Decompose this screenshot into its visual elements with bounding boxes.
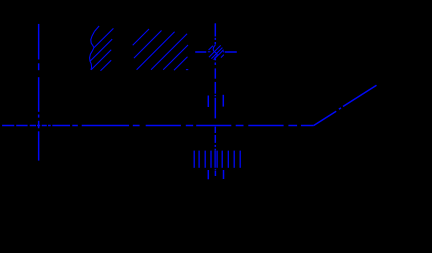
vertical centerline left (x=38.65) dash 1 [38,24,40,60]
horizontal centerline dash 15 [288,125,297,127]
hatch section2 bottom tick [186,69,188,71]
bundle line 5 center [214,150,216,168]
vertical centerline middle dot a [214,38,216,40]
crosshair horizontal right dash [225,51,237,53]
vertical centerline middle dash 2 [214,68,216,78]
bundle line 8 [227,151,229,168]
shaft break symbol at center (215.3,51.8) [208,45,224,60]
crosshair horizontal left dash [195,51,206,53]
bundle line 4 [210,151,212,168]
hatch section2 line 5 [163,45,188,70]
horizontal centerline dash 3 [30,125,36,127]
hidden line right flank upper dash [222,95,224,107]
horizontal centerline dash 14 [248,125,283,127]
hatch section2 line 4 [151,34,187,70]
centerline dot inside symbol right [223,51,224,53]
hatch section2 line 1 [133,29,149,45]
vertical centerline middle dot c [214,59,216,61]
horizontal centerline dash 4 [42,125,47,127]
bundle line 2 [198,151,200,168]
vertical centerline left crossing dash [38,121,40,129]
vertical centerline middle dot h below bundle [214,168,216,171]
vertical centerline left short dash [38,63,40,70]
wavy break line section 1 [90,31,95,70]
hatch section1 line 5 [101,60,112,70]
bundle line 9 [233,151,235,168]
hatch section1 line 3 [90,39,112,61]
vertical centerline middle (x=215.3) top dash [214,23,216,36]
horizontal centerline dash 6 [52,125,70,127]
vertical centerline middle dot d [214,63,216,65]
vertical centerline left dash 2 [38,77,40,112]
horizontal centerline dash 16 [301,125,314,127]
vertical centerline middle dash 3 [214,82,216,94]
horizontal centerline dash 10 [146,125,181,127]
hatch section2 line 2 [134,31,162,59]
horizontal centerline dash 9 [133,125,140,127]
spline bundle vertical lines [194,150,240,168]
vertical centerline middle dash 5 below crossing [214,127,216,133]
horizontal centerline dash 1 [2,125,14,127]
hidden line left flank upper dash [207,96,209,108]
vertical centerline middle dot between [214,95,216,97]
break symbol S-squiggle [213,45,217,59]
bundle line 6 [216,151,218,168]
bent centerline diagonal dot [339,108,341,109]
break symbol hatch stroke long 3 [214,50,224,60]
break symbol hatch stroke short lower-right [221,55,224,58]
horizontal centerline crossing dot [37,125,40,127]
vertical centerline middle dot e [214,145,216,147]
vertical centerline middle dash 4 [214,98,216,119]
break symbol hatch stroke long 1 [209,45,221,57]
vertical centerline left dot [38,115,40,118]
horizontal centerline dash 12 [196,125,231,127]
vertical centerline left lower dash [38,131,40,160]
horizontal centerline dash 2 [16,125,27,127]
hidden line left flank lower dash [207,170,209,179]
vertical centerline middle dot f [214,149,216,151]
centerline dot inside symbol left [208,51,211,53]
bent centerline diagonal segment 1 [314,111,337,125]
break symbol hatch stroke short upper-left [209,46,213,50]
hatch section2 line 3 [137,32,175,70]
vertical centerline middle dash 6 [214,135,216,143]
vertical centerline middle dot b [214,42,216,45]
horizontal centerline dash 7 [72,125,78,127]
break symbol hatch stroke long 2 [211,48,222,59]
hatch section2 line 6 [174,57,188,70]
hatch section1 line 4 [91,50,111,70]
horizontal centerline dash 13 [236,125,244,127]
horizontal centerline dot 5 [48,125,51,127]
horizontal centerline dash 11 [186,125,193,127]
vertical centerline middle bottom dash [214,171,216,177]
bent centerline diagonal segment 2 [343,85,377,106]
bundle line 3 [204,151,206,168]
bundle line 10 [239,151,241,168]
hatch section1 line 2 [94,28,114,47]
horizontal centerline dash 8 [82,125,129,127]
bundle line 1 [193,151,195,168]
hidden line right flank lower dash [223,170,225,179]
hatch section1 line 1 [95,26,100,31]
bundle line 7 [221,151,223,168]
